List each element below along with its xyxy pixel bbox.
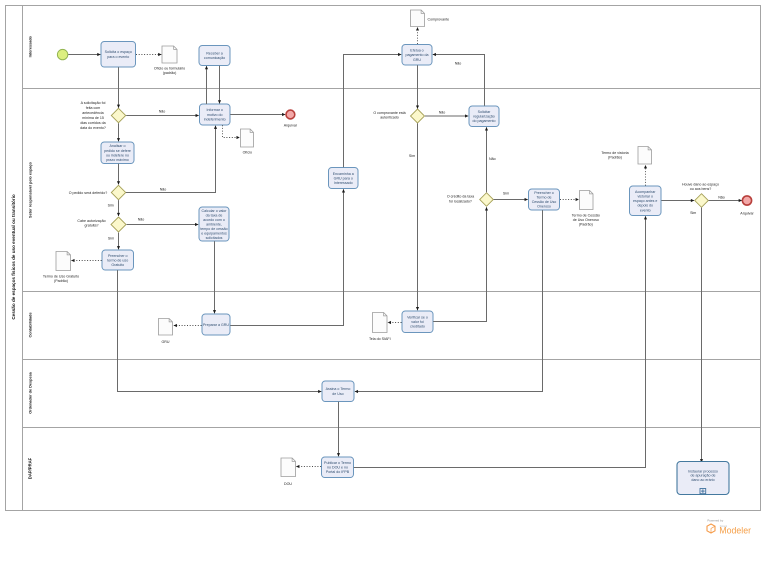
svg-text:GRU: GRU xyxy=(162,340,170,344)
svg-text:Tela do SIAFI: Tela do SIAFI xyxy=(369,337,391,341)
document: Comprovante xyxy=(411,10,425,27)
task: Informar o motivo do indeferimento xyxy=(200,104,231,125)
task: Solicita o espaço para o evento xyxy=(101,42,136,68)
svg-text:Sim: Sim xyxy=(503,192,509,196)
pool title divider xyxy=(22,6,24,511)
wire: gateway dano Não to end Arquivar xyxy=(709,200,742,202)
wire: Preencher gratuito down to Assina xyxy=(118,270,322,391)
wire: gateway antecedência down to Analisar xyxy=(118,123,120,141)
wire: Preencher oneroso down to Assina xyxy=(355,210,543,391)
wire: Calcular down to Preparar GRU xyxy=(214,241,216,313)
svg-text:Sim: Sim xyxy=(409,154,415,158)
svg-text:Interessado: Interessado xyxy=(29,35,33,57)
task: Calcular o valor da taxa xyxy=(199,207,229,241)
svg-text:Não: Não xyxy=(489,157,496,161)
svg-text:Preparar a GRU: Preparar a GRU xyxy=(203,323,229,327)
document: Termo de Cessão de Uso Oneroso (Padrão) xyxy=(580,191,594,210)
svg-text:Setor responsável pelo espaço: Setor responsável pelo espaço xyxy=(29,161,33,218)
wire: gateway deferido Sim down to gateway gratuita xyxy=(118,200,120,216)
svg-text:Powered by: Powered by xyxy=(707,519,723,523)
wire: Assina down to Publicar xyxy=(338,402,340,457)
svg-text:Cessão de espaços físicos de u: Cessão de espaços físicos de uso eventua… xyxy=(11,194,16,320)
task: Preencher o Termo de Cessão de Uso Oneroso xyxy=(529,189,560,210)
wire: gateway gratuita Sim down to Preencher gratuito xyxy=(118,233,120,250)
svg-text:O comprovante estáautenticado: O comprovante estáautenticado xyxy=(373,111,405,120)
gateway: O comprovante está autenticado? xyxy=(411,109,425,123)
task: Analisar o pedido se defere ou indefere no prazo máximo xyxy=(101,142,134,164)
wire: Solicita down to gateway antecedência xyxy=(118,67,120,108)
svg-text:Sim: Sim xyxy=(690,211,696,215)
task: Solicitar regularização do pagamento xyxy=(469,106,499,127)
wire: gateway comprovante Sim down to Verificar xyxy=(417,123,419,310)
lane divider Ordenador de Despesa / DAP PRAF xyxy=(23,427,761,429)
svg-text:Instaurar processode apuração: Instaurar processode apuração dedano ao … xyxy=(688,469,718,482)
gateway: O pedido será deferido? xyxy=(111,185,125,199)
wire: Solicitar regularização up to Efetua xyxy=(433,55,485,106)
wire: Preencher gratuito to doc Termo de Uso Gratuito xyxy=(71,260,101,262)
wire: Publicar to doc DOU xyxy=(296,466,321,468)
svg-text:Sim: Sim xyxy=(108,204,114,208)
document: Termo de vistoria (Padrão) xyxy=(638,147,652,165)
document: Termo de Uso Gratuito (Padrão) xyxy=(56,252,71,271)
wire: Encaminha up to Efetua pagamento xyxy=(344,55,402,168)
start event xyxy=(57,49,67,59)
svg-text:Não: Não xyxy=(718,195,725,199)
svg-text:Arquivar: Arquivar xyxy=(740,212,754,216)
wire: gateway antecedência to Informar motivo xyxy=(126,115,199,117)
svg-text:Arquivar: Arquivar xyxy=(284,123,298,127)
gateway: Houve dano ao espaço ou aos bens? xyxy=(695,194,709,208)
wire: Informar to end Arquivar xyxy=(230,114,285,116)
task: Preencher o termo de uso Gratuito xyxy=(102,250,134,270)
svg-text:Não: Não xyxy=(455,62,462,66)
wire: Efetua down to gateway comprovante xyxy=(417,65,419,108)
task: Efetua o pagamento da GRU xyxy=(402,45,432,66)
wire: Preparar to doc GRU xyxy=(174,325,202,327)
lane divider Contabilidade / Ordenador de Despesa xyxy=(23,359,761,361)
task: Encaminha a GRU para o Interessado xyxy=(329,168,359,189)
wire: gateway comprovante Não to Solicitar regularização xyxy=(425,115,468,117)
wire: Preencher oneroso to doc Termo de Cessão xyxy=(560,199,579,201)
svg-text:Termo de Uso Gratuito(Padrão): Termo de Uso Gratuito(Padrão) xyxy=(43,274,79,283)
gateway: Cabe autorização gratuita? xyxy=(111,217,126,232)
wire: Receber down to Informar xyxy=(219,66,221,104)
wire: gateway crédito Sim to Preencher oneroso xyxy=(494,199,528,201)
lane divider Setor responsável / Contabilidade xyxy=(23,291,761,293)
end event Arquivar (indeferimento) xyxy=(286,110,295,119)
task: Receber a comunicação xyxy=(199,46,230,66)
wire: Publicar to Acompanhar xyxy=(354,216,646,467)
task: Verificar se o valor foi creditado xyxy=(402,311,433,333)
document: Ofício ou formulário (padrão) xyxy=(162,46,177,63)
lane divider Interessado / Setor responsável xyxy=(23,88,761,90)
task: Assina o Termo de Uso xyxy=(322,381,354,402)
wire: Analisar down to gateway deferido xyxy=(118,164,120,185)
wire: Verificar to doc Tela do SIAFI xyxy=(388,322,402,324)
svg-text:Comprovante: Comprovante xyxy=(428,18,450,22)
svg-text:Modeler: Modeler xyxy=(719,525,751,535)
end event Arquivar (final) xyxy=(742,196,751,205)
svg-text:Não: Não xyxy=(160,187,167,191)
svg-text:DOU: DOU xyxy=(284,482,292,486)
logo: Powered by bizagi Modeler xyxy=(707,519,751,536)
svg-text:Publicar o Termono DOU e noPor: Publicar o Termono DOU e noPortal do IFP… xyxy=(324,461,351,474)
document: DOU xyxy=(281,458,296,477)
wire: gateway deferido Não up to Informar xyxy=(126,126,216,193)
task: Acompanhar vistoriar o espaço antes e depois do evento xyxy=(630,186,662,216)
svg-text:O pedido será deferido?: O pedido será deferido? xyxy=(69,191,108,195)
wire: Acompanhar to gateway dano xyxy=(661,200,694,202)
svg-text:Cabe autorizaçãogratuita?: Cabe autorizaçãogratuita? xyxy=(77,219,105,228)
svg-text:Solicita o espaçopara o evento: Solicita o espaçopara o evento xyxy=(105,50,132,59)
wire: Acompanhar to doc Termo de vistoria xyxy=(645,165,647,185)
svg-text:Sim: Sim xyxy=(108,237,114,241)
svg-text:Encaminha aGRU para oInteressa: Encaminha aGRU para oInteressado xyxy=(333,172,354,185)
svg-text:Contabilidade: Contabilidade xyxy=(29,312,33,337)
svg-text:Não: Não xyxy=(159,110,166,114)
svg-text:O crédito da taxafoi localizad: O crédito da taxafoi localizado? xyxy=(447,195,474,204)
svg-text:Ofício ou formulário(padrão): Ofício ou formulário(padrão) xyxy=(154,66,185,75)
document: GRU xyxy=(159,319,173,336)
svg-text:Ordenador de Despesa: Ordenador de Despesa xyxy=(29,371,33,413)
task: Publicar o Termo no DOU e no Portal do IFPB xyxy=(322,457,354,478)
wire: start to Solicita xyxy=(68,54,100,56)
svg-text:Termo de vistoria(Padrão): Termo de vistoria(Padrão) xyxy=(601,151,628,160)
wire: Efetua to doc Comprovante xyxy=(417,27,419,44)
wire: Informar up to Receber comunicação xyxy=(206,66,208,104)
svg-text:Ofício: Ofício xyxy=(243,151,252,155)
wire: gateway dano Sim down to Instaurar processo xyxy=(701,208,703,463)
subprocess: Instaurar processo de apuração de dano ao erário xyxy=(677,462,729,495)
svg-text:Termo de Cessãode Uso Oneroso(: Termo de Cessãode Uso Oneroso(Padrão) xyxy=(572,214,600,227)
wire: Verificar to gateway crédito xyxy=(433,207,486,321)
wire: Informar to doc Ofício xyxy=(223,125,240,137)
svg-text:Não: Não xyxy=(138,218,145,222)
svg-text:Informar omotivo doindeferimen: Informar omotivo doindeferimento xyxy=(204,108,226,121)
svg-text:A solicitação foifeita comante: A solicitação foifeita comantecedênciamí… xyxy=(80,101,106,130)
svg-text:Não: Não xyxy=(439,111,446,115)
svg-text:DAP/PRAF: DAP/PRAF xyxy=(28,457,33,479)
document: Tela do SIAFI xyxy=(373,313,388,333)
svg-text:Receber acomunicação: Receber acomunicação xyxy=(204,51,225,60)
svg-text:Houve dano ao espaçoou aos ben: Houve dano ao espaçoou aos bens? xyxy=(682,183,719,192)
wire: Solicita to doc Ofício ou formulário xyxy=(136,54,161,56)
gateway: A solicitação foi feita com antecedência mínima? xyxy=(111,108,125,122)
wire: gateway crédito Não up to Solicitar regularização xyxy=(486,127,488,192)
wire: gateway gratuita Não to Calcular xyxy=(127,224,199,226)
gateway: O crédito da taxa foi localizado? xyxy=(480,193,494,207)
wire: Preparar to Encaminha xyxy=(230,189,343,325)
document: Ofício xyxy=(241,129,254,147)
task: Preparar a GRU xyxy=(202,314,230,335)
